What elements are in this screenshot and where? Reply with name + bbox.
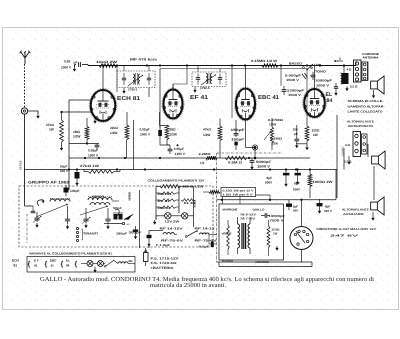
connector antenna plug [354, 60, 362, 82]
ground 220ohm [306, 146, 308, 149]
svg-text:1/2W: 1/2W [73, 135, 80, 139]
capacitor trimmer ant [34, 217, 39, 219]
svg-text:GAMENTO ALTOPAR-: GAMENTO ALTOPAR- [348, 104, 385, 108]
lamp dial a [165, 213, 171, 219]
ground near EL84 [335, 91, 337, 94]
capacitor padder ant [65, 218, 70, 220]
svg-text:41: 41 [51, 264, 55, 268]
ground 50uF [76, 181, 78, 184]
ground speaker bottom [372, 216, 374, 219]
ground buffer [276, 246, 278, 249]
capacitor EL84 screen [334, 86, 338, 88]
wire EL84 right down [343, 148, 345, 170]
svg-text:1W: 1W [313, 133, 318, 137]
svg-text:4 Ω: 4 Ω [345, 143, 351, 147]
svg-text:matricola da 25000 in avanti.: matricola da 25000 in avanti. [150, 282, 226, 289]
ground 8uF a [285, 182, 287, 185]
coil oscillator [88, 198, 112, 200]
svg-text:23000pF: 23000pF [287, 89, 304, 93]
svg-text:GRUPPO AF 1963: GRUPPO AF 1963 [28, 181, 69, 185]
wire volume pot linkage (dash-dot) [217, 152, 282, 154]
svg-text:7500 V: 7500 V [270, 219, 284, 223]
wire cathode row [69, 143, 99, 145]
ground T1 [123, 89, 125, 92]
svg-text:50μF: 50μF [60, 165, 67, 169]
resistor 1000ohm 2W [308, 174, 312, 187]
variable core arrow L1 [36, 204, 68, 217]
svg-text:a.c.: a.c. [127, 223, 131, 226]
switch supply [187, 231, 197, 236]
svg-text:1MΩ: 1MΩ [73, 130, 80, 134]
ground connector mid [348, 156, 350, 160]
svg-text:500V: 500V [293, 188, 301, 192]
svg-text:{: { [61, 260, 64, 268]
wire x133 screen [133, 120, 135, 170]
ground 27k [61, 146, 63, 149]
svg-text:4 Ω: 4 Ω [347, 68, 353, 72]
ground trimmer ant [36, 223, 38, 226]
svg-text:1792-1: 1792-1 [128, 88, 138, 92]
svg-text:VERDE: VERDE [19, 160, 23, 170]
svg-text:GIALLO: GIALLO [253, 209, 265, 212]
svg-text:RF 14-12V: RF 14-12V [160, 227, 183, 231]
svg-text:12V 2W: 12V 2W [165, 219, 180, 223]
svg-text:{: { [45, 260, 48, 268]
wire bus y169 [24, 169, 337, 171]
svg-text:1000 V: 1000 V [140, 133, 151, 137]
capacitor trimmer T2 left [196, 77, 200, 79]
variable core arrow L2 [80, 206, 108, 215]
svg-text:1/2W: 1/2W [271, 142, 278, 146]
svg-text:SCHEMA DI COLLE-: SCHEMA DI COLLE- [348, 99, 384, 103]
svg-text:100μF: 100μF [70, 189, 80, 193]
svg-text:150pF: 150pF [231, 137, 244, 141]
svg-text:F 1.0μF: F 1.0μF [156, 243, 170, 247]
svg-text:50pF: 50pF [113, 206, 122, 210]
svg-text:27kΩ 1W: 27kΩ 1W [80, 164, 99, 168]
svg-text:1/2W: 1/2W [269, 123, 276, 127]
svg-text:0.1MΩ: 0.1MΩ [270, 137, 283, 141]
wire antenna down-lead [24, 114, 26, 199]
capacitor osc out [133, 230, 138, 232]
heater EL 84 [181, 199, 195, 202]
ground choke [346, 87, 348, 90]
ground 150pF c [296, 144, 298, 147]
svg-text:41: 41 [34, 264, 38, 268]
variante box [27, 257, 135, 273]
svg-text:{: { [28, 260, 31, 268]
svg-text:0.5μF: 0.5μF [199, 245, 210, 249]
heater EF 41 [160, 199, 176, 202]
wire antenna lead (dashed) [24, 64, 26, 107]
vibrator circle [290, 227, 313, 250]
ground osc trimmer [85, 224, 87, 227]
wire transformer top leads [239, 197, 241, 205]
transformer core [241, 223, 243, 249]
wire tube EBC41 down [245, 120, 247, 148]
capacitor trimmer T1 right [147, 77, 151, 79]
svg-text:0.27MΩ: 0.27MΩ [268, 118, 284, 122]
wire grid line ECH81 [62, 111, 93, 113]
svg-text:AUSILIARIE: AUSILIARIE [343, 212, 364, 216]
svg-text:300μF: 300μF [129, 230, 142, 234]
svg-text:0.05μF: 0.05μF [140, 128, 150, 132]
svg-text:LANTE COLLEGATO: LANTE COLLEGATO [348, 110, 384, 114]
connector speaker mid [353, 132, 361, 157]
capacitor 8uF 500V d [286, 204, 292, 207]
svg-text:8μF: 8μF [267, 176, 273, 180]
svg-text:220Ω: 220Ω [312, 129, 320, 133]
transformer T secondary [248, 224, 250, 248]
wire power return bus [219, 266, 312, 268]
svg-text:F.S. 1720-6Ω: F.S. 1720-6Ω [151, 261, 178, 265]
svg-text:2.5 Ω: 2.5 Ω [350, 85, 358, 89]
resistor 0.5M on bus [225, 156, 247, 159]
svg-text:E F: E F [34, 259, 39, 263]
svg-text:1792-6: 1792-6 [200, 86, 210, 90]
svg-text:2.2MΩ: 2.2MΩ [199, 152, 212, 156]
svg-text:COLLEGAMENTO FILAMENTI 12V: COLLEGAMENTO FILAMENTI 12V [148, 179, 205, 183]
svg-text:F.S. 1715-12V: F.S. 1715-12V [151, 257, 180, 261]
coil reaction small [114, 209, 119, 215]
IF transformer T2 1792-6 (dashed box) [192, 72, 226, 87]
wire y169 to power [335, 170, 337, 200]
capacitor 8uF 500V b [295, 173, 301, 176]
svg-text:8μF: 8μF [294, 182, 300, 186]
svg-text:ALTOPARLANTE: ALTOPARLANTE [347, 120, 374, 124]
svg-text:1.0Ω 1W per 6 V: 1.0Ω 1W per 6 V [223, 194, 253, 197]
ground padder [67, 225, 69, 228]
svg-text:1500 V: 1500 V [316, 84, 330, 88]
svg-text:MF 470 kc/s: MF 470 kc/s [130, 58, 157, 62]
ground variante [94, 267, 96, 269]
svg-text:8Ω: 8Ω [129, 259, 134, 263]
svg-text:1200 V: 1200 V [175, 152, 186, 156]
wire bus to connector [355, 61, 357, 66]
ground filament [155, 216, 157, 220]
svg-text:0.22Ω 1W per 12 V: 0.22Ω 1W per 12 V [223, 190, 254, 193]
svg-text:1500 V: 1500 V [257, 165, 271, 169]
capacitor trimmer T2 right [218, 77, 222, 79]
wire vibrator leads [301, 200, 303, 227]
IF transformer T1 1792-1 (dashed box) [117, 71, 155, 88]
svg-text:ALTOPARLANTE: ALTOPARLANTE [342, 208, 369, 212]
svg-text:5.000pF: 5.000pF [285, 74, 301, 78]
wire gruppo internal [24, 199, 26, 206]
svg-text:68Ω: 68Ω [170, 128, 177, 132]
svg-text:1/2: 1/2 [200, 161, 205, 165]
capacitor 100uF [64, 188, 69, 193]
svg-text:13000pF: 13000pF [269, 214, 286, 218]
svg-text:84: 84 [66, 264, 70, 268]
svg-text:pF: pF [294, 132, 298, 136]
svg-text:500V: 500V [265, 181, 273, 185]
svg-text:TONO: TONO [315, 70, 327, 74]
svg-text:EF 41: EF 41 [190, 95, 208, 101]
wire bus y158 [69, 157, 310, 159]
svg-text:247 6V: 247 6V [330, 235, 359, 238]
ground speaker top [373, 90, 375, 94]
wire EF41 cathode to bus [159, 69, 161, 120]
svg-text:5000pF: 5000pF [256, 160, 271, 164]
wire top supply bus [88, 65, 356, 67]
svg-text:ECH 81: ECH 81 [117, 96, 140, 102]
capacitor osc trimmer [83, 218, 88, 220]
capacitor 13000pF 7500V [264, 213, 266, 218]
transformer box [219, 204, 284, 260]
svg-text:μF: μF [74, 61, 78, 65]
capacitor trimmer T1 left [122, 77, 126, 79]
wire ECH81 anode to T1 [102, 66, 104, 91]
svg-text:VIBRATORE G-347 MALLORY 12: VIBRATORE G-347 MALLORY 12V [316, 228, 376, 231]
svg-text:1W: 1W [49, 128, 54, 132]
coil T2 windings [206, 74, 208, 84]
wire EL84 anode up [314, 66, 316, 90]
svg-text:1000 V: 1000 V [88, 154, 99, 158]
ground 8uF c [319, 209, 321, 212]
svg-text:27kΩ: 27kΩ [46, 123, 54, 127]
wire long vertical x69 [68, 100, 70, 190]
wire T1 secondary to ECH81 grid [148, 88, 150, 98]
wire power bottom bus [217, 261, 313, 263]
svg-text:ALTO: ALTO [311, 63, 322, 67]
tube V1 ECH 81 [91, 90, 116, 121]
coil padding small [114, 214, 118, 220]
wire filament rail right [178, 186, 180, 213]
tube V2 EF 41 [164, 90, 183, 119]
capacitor 8uF 500V a [283, 173, 289, 176]
svg-text:600 V: 600 V [60, 169, 69, 173]
svg-text:ANTENNA: ANTENNA [363, 55, 380, 59]
svg-text:RF-75-6V: RF-75-6V [161, 238, 183, 242]
coil T1 windings [133, 74, 135, 84]
wire mid bus y199 [217, 199, 337, 201]
svg-text:0.15MΩ 1/2 W: 0.15MΩ 1/2 W [251, 59, 277, 63]
svg-text:1000 V: 1000 V [61, 66, 72, 70]
svg-text:0.05μF: 0.05μF [88, 149, 98, 153]
svg-text:1000Ω 2W: 1000Ω 2W [313, 180, 333, 184]
speaker loudspeaker top [371, 81, 378, 89]
svg-text:1/2W: 1/2W [170, 133, 177, 137]
svg-text:RF 14-12: RF 14-12 [195, 227, 216, 231]
fuse [144, 253, 149, 262]
ground T2 [194, 87, 196, 89]
heater ECH 81 [160, 192, 176, 195]
node tiranti terminals [76, 227, 78, 229]
ground osc out [135, 235, 137, 238]
caption line 1 [40, 276, 374, 289]
wire EBC41 anode up [245, 66, 247, 89]
wire x270 down [269, 195, 271, 200]
wire antenna to ground [28, 111, 38, 114]
wire T2 to bus [197, 66, 199, 73]
lamp dial b [182, 213, 188, 219]
svg-text:TIRANTI: TIRANTI [83, 232, 98, 236]
wire choke to fuse [148, 246, 150, 248]
svg-text:1/2W: 1/2W [203, 133, 210, 137]
tube V3 EBC 41 [236, 89, 255, 120]
svg-text:MARRONE: MARRONE [223, 209, 238, 212]
switch wave arrow [124, 215, 133, 220]
wire speaker mid down [373, 166, 375, 193]
speaker loudspeaker mid [372, 156, 379, 164]
coil antenna primary [37, 200, 43, 206]
capacitor 8uF 500V c [317, 203, 323, 206]
svg-text:84: 84 [327, 98, 333, 104]
svg-text:0.05μF: 0.05μF [174, 147, 184, 151]
switch variante [106, 260, 114, 266]
ground 300uF [148, 242, 150, 245]
speaker loudspeaker bottom [371, 202, 378, 210]
wire filament feed left [139, 190, 141, 248]
wire EF41 anode up [172, 84, 174, 90]
wire x232 vertical [231, 66, 233, 119]
wire bus y199-200 [256, 194, 270, 196]
svg-text:EBC: EBC [50, 259, 57, 263]
tube V4 EL 84 [304, 89, 325, 117]
svg-text:EBC 41: EBC 41 [258, 95, 279, 101]
svg-text:81: 81 [14, 264, 18, 268]
wire variante links [81, 263, 87, 265]
svg-text:1W: 1W [273, 232, 278, 236]
svg-text:VERDE: VERDE [129, 192, 132, 201]
wire T1 connections [123, 66, 125, 72]
svg-text:47kΩ: 47kΩ [203, 128, 211, 132]
ground antenna cap [74, 67, 76, 70]
svg-text:10000pF: 10000pF [315, 79, 332, 83]
svg-text:VARIANTE AL COLLEGAMENTO FI: VARIANTE AL COLLEGAMENTO FILAMENTI ECH 8… [29, 252, 112, 256]
wire speaker bottom feed [373, 193, 375, 200]
svg-text:150pF: 150pF [231, 128, 245, 132]
svg-text:500: 500 [293, 209, 298, 213]
ground 8uF b [297, 180, 299, 183]
wire cap to bus [82, 64, 88, 66]
svg-text:1/2W: 1/2W [110, 131, 117, 135]
capacitor 5000pF 1500V mid [250, 160, 255, 162]
transformer T primary [238, 224, 240, 248]
svg-text:78 7- 6V: 78 7- 6V [240, 217, 255, 221]
arrow to antenna [334, 60, 343, 62]
node antenna connector [21, 108, 27, 114]
ground 5000pF [251, 165, 253, 168]
wire right vertical x337 [336, 115, 338, 198]
svg-text:0.5M Ω: 0.5M Ω [228, 161, 243, 165]
wire x307 vertical [306, 69, 308, 120]
wire lamps row [156, 215, 165, 217]
svg-text:INCORPORATO: INCORPORATO [348, 124, 374, 128]
lamp variante a [87, 261, 93, 267]
ground osc padder [107, 225, 109, 228]
capacitor 23000pF 1500V [282, 89, 287, 91]
svg-text:BASSO: BASSO [289, 62, 303, 66]
svg-text:180μF: 180μF [116, 232, 127, 236]
svg-text:8μF: 8μF [325, 205, 331, 209]
svg-text:1500 V: 1500 V [288, 93, 302, 97]
svg-text:EL: EL [66, 259, 70, 263]
antenna [21, 52, 26, 59]
ground ECH81 pin [94, 119, 96, 122]
wire x281 tone down [280, 66, 282, 87]
svg-text:1500 V: 1500 V [286, 78, 300, 82]
switch tone [303, 67, 305, 69]
svg-text:{: { [75, 260, 78, 268]
coil antenna secondary [50, 199, 70, 202]
node switch contact [122, 222, 124, 224]
svg-text:0.05: 0.05 [64, 60, 70, 64]
wire secondary bus segment [160, 68, 307, 70]
svg-text:500 V: 500 V [324, 209, 332, 213]
tuner box GRUPPO AF (dashed) [19, 186, 213, 247]
capacitor gruppo corner [31, 210, 36, 212]
ground antenna jack [37, 114, 39, 117]
svg-text:ECH: ECH [12, 259, 19, 263]
heater EBC 41 [160, 206, 176, 209]
node junction 255 [254, 146, 257, 149]
svg-text:22kΩ: 22kΩ [110, 126, 118, 130]
wire filament rail left [155, 186, 157, 219]
resistor 0.22ohm box [221, 188, 256, 197]
lamp variante b [98, 261, 104, 267]
capacitor osc padder [105, 218, 110, 220]
chassis dash-dot boundary [26, 214, 28, 243]
resistor buffer left [227, 225, 230, 249]
svg-text:+BATTERIA: +BATTERIA [151, 266, 175, 270]
wire x117 vertical [116, 92, 118, 112]
svg-text:AZZURRO: AZZURRO [255, 261, 269, 264]
coil variante [118, 262, 128, 264]
